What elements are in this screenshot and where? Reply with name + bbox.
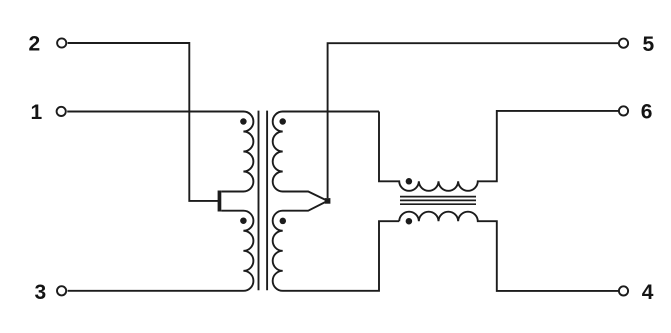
svg-text:5: 5 [642, 33, 654, 56]
polarity dot T1 primary upper [240, 118, 247, 125]
transformer T1 secondary upper winding [273, 112, 379, 201]
terminal pin 3 [57, 286, 66, 295]
wire pin2 to center tap [68, 43, 219, 201]
transformer T2 core line middle [400, 199, 476, 201]
transformer T1 core line right [266, 111, 268, 291]
polarity dot T1 secondary upper [279, 118, 286, 125]
terminal pin 1 [57, 107, 66, 116]
junction secondary center tap [325, 198, 331, 204]
polarity dot T2 upper [406, 178, 413, 185]
wire pin5 to secondary center tap junction [328, 43, 619, 198]
terminal pin 6 [619, 106, 628, 115]
wire pin1 and transformer T1 primary upper winding [67, 112, 253, 192]
transformer T2 lower winding and wire to pin4 [399, 212, 618, 291]
transformer T1 secondary lower winding [273, 201, 400, 291]
transformer T2 upper winding and wire to pin6 [379, 111, 619, 191]
transformer T1 core line left [258, 111, 260, 291]
svg-text:6: 6 [641, 101, 653, 124]
terminal pin 2 [57, 38, 66, 47]
svg-text:2: 2 [28, 32, 40, 55]
wire pin3 and transformer T1 primary lower winding [68, 211, 254, 291]
terminal pin 4 [619, 286, 628, 295]
polarity dot T1 secondary lower [280, 218, 287, 225]
transformer T2 core line bottom [400, 203, 476, 205]
polarity dot T1 primary lower [240, 217, 247, 224]
polarity dot T2 lower [406, 218, 413, 225]
svg-text:1: 1 [31, 101, 43, 124]
primary center tap bar [218, 191, 222, 212]
svg-text:3: 3 [35, 281, 47, 304]
svg-text:4: 4 [642, 281, 654, 304]
terminal pin 5 [619, 39, 628, 48]
transformer T2 core line top [400, 196, 476, 198]
